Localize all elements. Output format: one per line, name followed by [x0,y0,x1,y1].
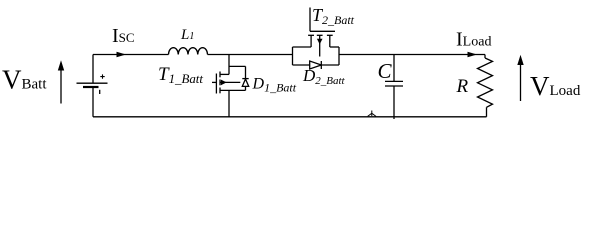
T2 right stub vertical [329,35,331,47]
svg-text:T1_Batt: T1_Batt [158,64,203,86]
diode D1_Batt vertical leads [245,66,247,90]
battery B1 short plate [83,86,99,88]
transistor T1_Batt gate plate [215,74,217,94]
svg-text:C: C [378,59,393,83]
arrowhead VLoad [517,55,523,65]
transistor T1_Batt middle stub [220,81,240,83]
resistor R top lead [484,55,486,59]
wire hop on bottom wire [368,111,376,117]
wire left vertical (battery bottom lead) [92,87,94,117]
transistor T2_Batt channel dash 3 [327,34,333,36]
svg-text:T2_Batt: T2_Batt [312,5,355,27]
battery minus tick [99,90,101,94]
transistor T2_Batt arrow [317,39,323,45]
diode D1_Batt cathode bar [242,78,248,80]
wire top-left horizontal (battery to T2 block) [93,54,293,56]
svg-text:L1: L1 [180,27,194,43]
svg-text:D1_Batt: D1_Batt [252,76,297,95]
arrowhead ILoad (current arrow on top wire) [468,52,478,58]
T2 left jog horizontal [293,46,312,48]
T2 right jog horizontal [330,46,339,48]
svg-text:ILoad: ILoad [456,28,491,50]
capacitor C bottom lead [393,86,395,119]
transistor T1_Batt gate lead [212,81,216,83]
T2/D2 block right vertical [338,47,340,65]
transistor T1_Batt source bus [228,90,230,116]
arrow VBatt (voltage arrow up) [60,70,62,104]
resistor R bottom lead [486,107,488,117]
battery B1 long plate [77,82,108,84]
transistor T1_Batt drain bus [228,55,230,75]
capacitor C bottom plate [385,85,403,87]
transistor T1_Batt channel dash 2 [219,80,221,86]
transistor T2_Batt gate lead [309,8,311,32]
arrowhead Isc (current arrow on top wire) [117,52,127,58]
svg-text:D2_Batt: D2_Batt [302,66,346,87]
capacitor C top lead [393,55,395,82]
transistor T1_Batt source stub / diode bottom jog [220,89,246,91]
capacitor C top plate [385,80,403,82]
resistor R zigzag [478,58,493,107]
diode D1_Batt triangle [242,79,248,86]
transistor T2_Batt middle stub [319,35,321,56]
transistor T1_Batt drain stub [220,73,229,75]
svg-text:VLoad: VLoad [530,71,581,101]
transistor T2_Batt gate plate [310,30,335,32]
wire left vertical (battery top lead) [92,55,94,84]
transistor T2_Batt channel dash 2 [317,34,323,36]
svg-text:VBatt: VBatt [2,65,47,95]
transistor T1_Batt arrow [221,80,227,86]
battery plus sign [100,74,104,78]
diode D2_Batt horizontal leads [293,64,340,66]
wire top-right horizontal (T2 block to resistor) [339,54,485,56]
transistor T1_Batt channel dash 1 [219,72,221,78]
inductor L1 [169,48,208,55]
diode D2_Batt triangle [310,61,322,69]
T2 left stub vertical [310,35,312,47]
T2/D2 block left vertical [292,47,294,65]
wire bottom horizontal [93,116,487,118]
transistor T2_Batt channel dash 1 [308,34,314,36]
svg-text:R: R [456,76,469,97]
diode D2_Batt cathode bar [320,61,322,69]
arrowhead VBatt [58,60,64,70]
arrow VLoad (voltage arrow up) [520,64,522,101]
svg-text:ISC: ISC [112,25,135,47]
transistor T1_Batt channel dash 3 [219,88,221,94]
wire jog to diode D1 top [229,65,246,67]
